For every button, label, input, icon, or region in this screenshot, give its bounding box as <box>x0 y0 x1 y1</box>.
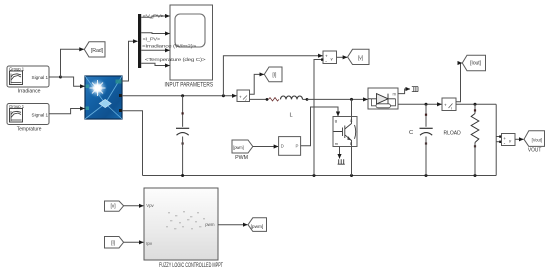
wire I1 out to inductor <box>250 98 267 100</box>
wire pwm to PWM generator <box>253 146 278 148</box>
svg-text:P: P <box>296 144 299 149</box>
current measurement I2 <box>442 98 456 111</box>
node inductor left pad <box>266 98 269 101</box>
svg-text:[Vout]: [Vout] <box>532 137 542 142</box>
svg-text:C: C <box>409 130 413 136</box>
PWM generator block <box>279 137 301 156</box>
node RLOAD top <box>474 103 477 106</box>
wire right riser <box>495 104 497 175</box>
svg-text:<Irradiance (W/m2)>: <Irradiance (W/m2)> <box>142 43 197 48</box>
wire to goto Rad <box>61 49 84 77</box>
wire I to fuzzy Ipv <box>124 241 144 243</box>
svg-text:FUZZY LOGIC CONTROLLED MPPT: FUZZY LOGIC CONTROLLED MPPT <box>159 263 223 269</box>
goto tag [I] <box>264 67 282 82</box>
wire riser to V2 minus <box>496 141 500 143</box>
wire IGBT m to terminator <box>339 147 341 159</box>
svg-text:D: D <box>281 144 284 149</box>
svg-text:Signal 1: Signal 1 <box>32 112 49 117</box>
goto tag [v] <box>348 49 369 64</box>
inductor L <box>281 96 303 99</box>
wire bus Temperature to scope <box>141 63 169 65</box>
wire I2 out to right riser <box>456 103 496 105</box>
node inductor right pad <box>306 98 309 101</box>
svg-text:+: + <box>239 94 242 99</box>
IGBT block <box>333 117 357 147</box>
svg-text:g: g <box>335 119 337 123</box>
svg-text:Vpv: Vpv <box>146 203 154 208</box>
svg-text:VOUT: VOUT <box>528 148 542 154</box>
wire irradiance to PV in1 <box>61 77 85 86</box>
goto tag [pwm] out <box>248 218 267 232</box>
node vmeas1 tap <box>222 94 225 97</box>
svg-text:[v]: [v] <box>111 204 117 210</box>
svg-text:<Temperature (deg C)>: <Temperature (deg C)> <box>145 57 206 62</box>
wire Irradiance output <box>49 76 61 78</box>
wire bus V_PV to scope <box>141 16 169 17</box>
capacitor C1 <box>176 96 189 176</box>
svg-text:[Iout]: [Iout] <box>470 60 482 66</box>
wire IGBT C to bus <box>351 99 353 116</box>
svg-text:[Rad]: [Rad] <box>91 48 104 54</box>
voltage measurement V2 <box>502 134 516 148</box>
svg-text:[pwm]: [pwm] <box>233 145 243 150</box>
scope INPUT PARAMETERS <box>170 5 213 80</box>
resistor part of RL branch <box>269 98 280 101</box>
svg-text:INPUT PARAMETERS: INPUT PARAMETERS <box>165 83 214 89</box>
wire IGBT E to bottom bus <box>351 147 353 176</box>
svg-text:Irradiance: Irradiance <box>18 88 41 94</box>
terminator T1 <box>338 159 345 164</box>
svg-text:<I_PV>: <I_PV> <box>143 37 161 42</box>
svg-text:<V_PV>: <V_PV> <box>143 14 165 19</box>
wire I2 i out to goto Iout <box>456 63 462 102</box>
wire Temprature to PV in2 <box>49 109 85 114</box>
wire PV m to bus selector <box>122 41 138 81</box>
node cap1 top <box>181 94 184 97</box>
node IGBT collector tap <box>350 98 353 101</box>
resistor RLOAD <box>471 104 479 175</box>
svg-text:m: m <box>335 142 338 146</box>
PV array block <box>85 76 122 119</box>
terminator T2 <box>412 87 418 92</box>
svg-text:Temprature: Temprature <box>17 126 42 132</box>
capacitor C2 <box>420 104 433 175</box>
goto tag [Rad] <box>84 42 105 57</box>
wire I1 i out to goto I <box>250 74 264 94</box>
svg-text:L: L <box>290 112 293 118</box>
wire inductor to diode <box>307 98 368 100</box>
wire PV plus top bus <box>122 95 237 97</box>
voltage measurement V1 <box>323 51 337 65</box>
svg-text:[pwm]: [pwm] <box>251 224 264 230</box>
bus selector <box>138 14 141 68</box>
wire diode m to terminator T2 <box>398 89 410 94</box>
bottom bus <box>143 175 497 177</box>
svg-text:RLOAD: RLOAD <box>444 130 461 136</box>
svg-text:Signal 1: Signal 1 <box>32 75 49 80</box>
fuzzy logic MPPT subsystem <box>144 188 218 260</box>
node C2 top <box>425 103 428 106</box>
wire vmeas1 minus down to bottom bus <box>314 60 323 176</box>
wire diode out to imeas2 <box>398 103 442 105</box>
svg-text:PWM: PWM <box>235 155 248 161</box>
diode block D1 <box>368 88 398 109</box>
goto tag [Vout] <box>524 131 545 147</box>
svg-text:pwm: pwm <box>205 222 215 227</box>
wire V1 out to goto v <box>337 56 348 58</box>
svg-text:i: i <box>451 105 452 110</box>
node bottom IGBT E <box>350 174 353 177</box>
from tag [v] <box>105 201 124 211</box>
node bottom vmeas1 minus <box>313 174 316 177</box>
wire riser to V2 plus <box>496 136 500 138</box>
current measurement I1 <box>237 90 250 102</box>
svg-text:[v]: [v] <box>358 55 364 61</box>
svg-text:+: + <box>444 103 447 108</box>
svg-text:Ipv: Ipv <box>146 241 153 246</box>
from tag [I] bottom <box>105 237 124 249</box>
node irradiance split <box>59 76 62 79</box>
from tag [pwm] <box>232 140 253 153</box>
svg-text:i: i <box>246 97 247 102</box>
wire v to fuzzy Vpv <box>124 205 144 207</box>
goto tag [Iout] <box>462 55 485 70</box>
wire PWM to IGBT gate <box>301 107 338 146</box>
node bottom cap1 <box>181 174 184 177</box>
wire bus I_PV to scope <box>141 32 169 35</box>
node bottom C2 <box>425 174 428 177</box>
wire V2 out to goto Vout <box>515 138 523 140</box>
wire fuzzy pwm to goto pwm <box>218 224 247 226</box>
node bottom RLOAD <box>474 174 477 177</box>
wire tap to vmeas1 plus <box>223 56 322 96</box>
signal builder Temprature <box>7 104 49 125</box>
svg-text:m: m <box>393 91 397 96</box>
signal builder Irradiance <box>7 66 49 87</box>
wire bus Irradiance to scope <box>141 49 169 51</box>
wire PV minus to bottom bus <box>122 111 143 176</box>
